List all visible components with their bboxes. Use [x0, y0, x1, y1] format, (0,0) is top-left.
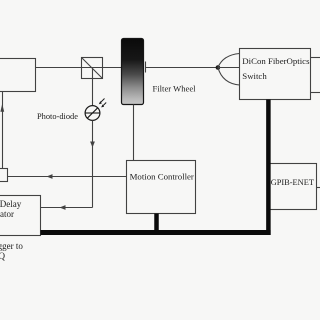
fiber coupler node (dot + fan of fibers into switch) — [216, 54, 240, 86]
wire filter wheel to fiber coupler — [146, 67, 218, 69]
filter wheel — [122, 39, 144, 105]
wire laser through beam splitter to filter wheel — [36, 67, 122, 69]
small interface box at left edge — [0, 169, 8, 182]
Motion Controller box — [127, 161, 196, 214]
switch output fiber 1 to right edge — [311, 57, 320, 59]
svg-text:Trigger to: Trigger to — [0, 241, 23, 251]
filter wheel aperture tick — [145, 62, 147, 73]
svg-text:Generator: Generator — [0, 209, 14, 219]
svg-text:DiCon FiberOptics: DiCon FiberOptics — [242, 56, 310, 66]
thick GPIB bus: switch down — [266, 100, 271, 236]
thick GPIB bus: motion controller down — [154, 214, 159, 233]
svg-text:Photo-diode: Photo-diode — [37, 112, 78, 121]
laser box (cut off at left edge) — [0, 59, 36, 92]
wire beam splitter centre down to photodiode — [92, 68, 94, 106]
wire photodiode down to y207 (down arrow) — [90, 120, 95, 207]
wire small box up to laser (up arrow) — [0, 92, 4, 169]
delay generator box (cut off at left edge) — [0, 196, 41, 236]
wire filter wheel down to motion controller — [133, 105, 135, 161]
svg-text:DAQ: DAQ — [0, 251, 5, 261]
DiCon FiberOptics Switch box U1 — [240, 49, 311, 100]
GPIB-ENET box — [268, 164, 317, 210]
svg-text:GPIB-ENET: GPIB-ENET — [271, 178, 314, 187]
label Trigger to DAQ (cut off) — [0, 241, 23, 261]
photodiode D1 — [85, 99, 106, 121]
svg-text:Switch: Switch — [242, 71, 267, 81]
wire motion controller to small box y176 (left arrow) — [8, 174, 127, 179]
wire y207 to delay generator (left arrow) — [41, 205, 93, 210]
thick GPIB bus: horizontal — [41, 230, 271, 235]
switch output fiber 2 to right edge — [311, 92, 320, 94]
svg-text:Motion Controller: Motion Controller — [130, 172, 194, 182]
svg-text:Filter Wheel: Filter Wheel — [153, 84, 197, 94]
svg-text:al Delay: al Delay — [0, 199, 22, 209]
beam splitter — [82, 58, 103, 79]
wire GPIB-ENET to right edge — [317, 187, 320, 189]
